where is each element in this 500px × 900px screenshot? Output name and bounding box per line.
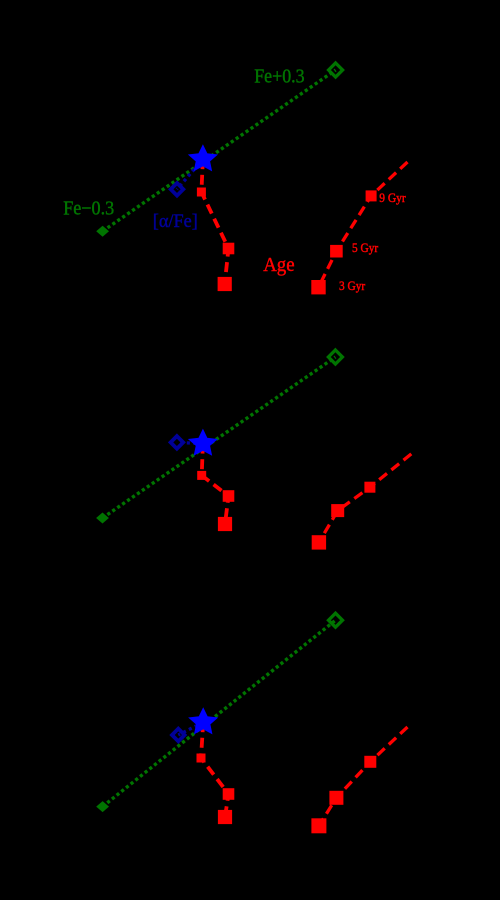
svg-text:Age: Age [263, 254, 295, 276]
svg-text:Fe−0.3: Fe−0.3 [63, 198, 114, 220]
svg-text:9 Gyr: 9 Gyr [379, 191, 406, 205]
svg-text:5 Gyr: 5 Gyr [352, 241, 379, 255]
svg-text:3 Gyr: 3 Gyr [339, 279, 366, 293]
svg-text:[α/Fe]: [α/Fe] [153, 211, 198, 232]
svg-text:Fe+0.3: Fe+0.3 [254, 65, 304, 87]
